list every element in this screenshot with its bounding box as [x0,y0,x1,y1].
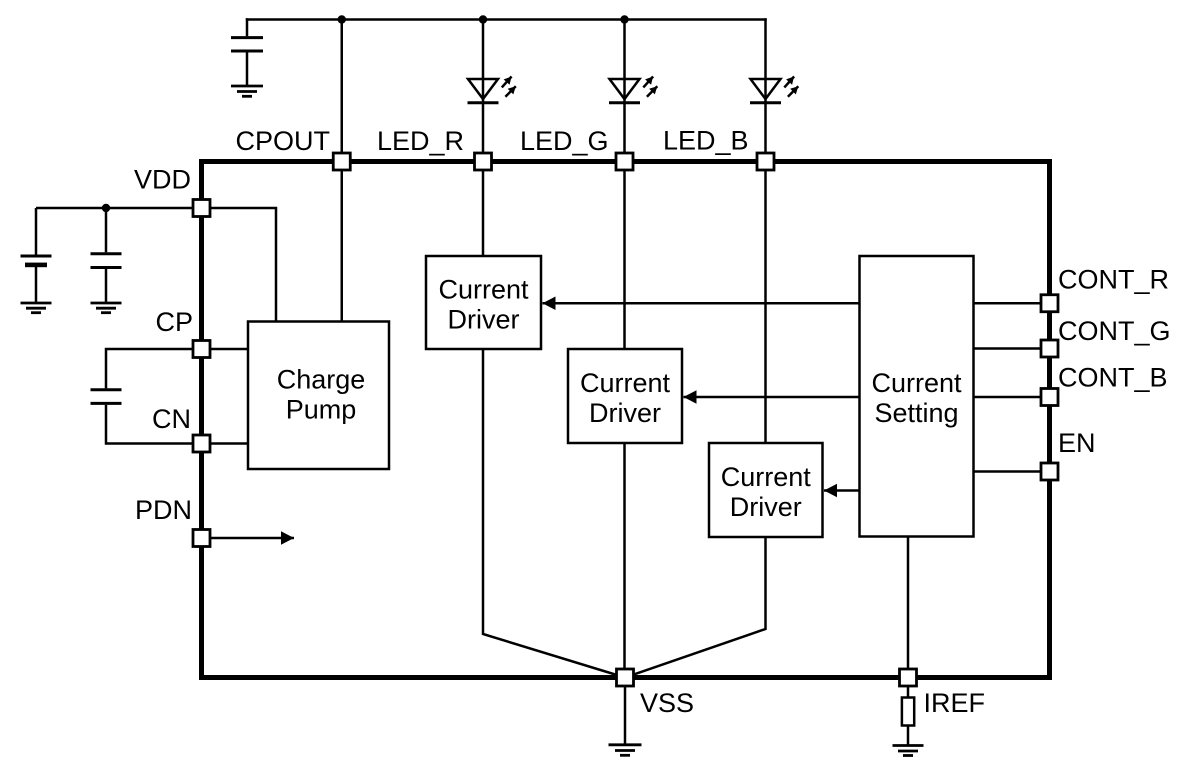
node junction VDD rail / C3 [102,204,110,212]
pin VDD [193,200,210,217]
svg-text:CPOUT: CPOUT [236,126,331,156]
block Current Driver G [568,349,682,443]
block Current Setting U2 [860,256,974,537]
svg-text:CONT_G: CONT_G [1058,316,1171,346]
svg-text:Current: Current [580,368,671,398]
wire IREF pin to resistor [907,686,910,698]
wire LED_R column (rail to pin) [482,20,485,153]
svg-text:EN: EN [1058,428,1096,458]
svg-text:VSS: VSS [640,688,694,718]
svg-text:IREF: IREF [924,688,986,718]
wire Current Driver R to VSS [483,349,625,678]
svg-text:LED_G: LED_G [520,126,609,156]
capacitor C4 (flying cap CP-CN) [91,349,194,444]
svg-text:PDN: PDN [135,495,192,525]
wire CPOUT pin to Charge Pump [341,171,344,322]
arrow Current Setting to Current Driver R [543,302,860,305]
wire resistor to ground [907,726,910,746]
svg-text:Charge: Charge [277,365,366,395]
wire LED_G pin to Current Driver G [623,171,626,349]
pin CPOUT [333,153,350,170]
svg-text:Current: Current [438,275,529,305]
wire CP pin to Charge Pump [210,348,248,351]
ground (VSS) [609,745,642,756]
svg-text:CONT_B: CONT_B [1058,363,1168,393]
svg-text:Driver: Driver [448,305,520,335]
resistor R1 (IREF set resistor) [902,698,914,726]
arrow PDN internal signal [211,537,295,540]
pin CONT_B [1041,389,1058,406]
wire VDD rail (left) [36,207,193,210]
svg-text:Pump: Pump [286,395,357,425]
capacitor C3 (input cap) [91,208,122,302]
wire VSS pin to ground [624,686,627,745]
node junction LED_G/rail [620,15,628,23]
pin IREF [900,669,917,686]
svg-text:Setting: Setting [874,398,958,428]
ground (below C2) [21,303,52,313]
wire VDD pin to Charge Pump [210,208,276,322]
ground (below C3) [91,303,122,313]
pin CN [193,435,210,452]
pin VSS [617,669,634,686]
arrow Current Setting to Current Driver B [824,489,860,492]
pin PDN [193,530,210,547]
pin CP [193,341,210,358]
node junction CPOUT/rail [338,15,346,23]
pin CONT_R [1041,295,1058,312]
svg-text:VDD: VDD [134,165,191,195]
wire Current Driver B to VSS [625,537,766,678]
wire CN pin to Charge Pump [210,442,248,445]
wire LED_B pin to Current Driver B [764,171,767,443]
arrow Current Setting to Current Driver G [684,396,860,399]
block Current Driver R [426,256,541,349]
svg-text:CONT_R: CONT_R [1058,265,1169,295]
wire Current Driver G to VSS [623,443,626,678]
capacitor C1 (top decoupling cap) [231,18,263,86]
block Charge Pump U1 [248,322,389,470]
pin CONT_G [1041,340,1058,357]
ground (IREF) [893,746,924,756]
node junction LED_R/rail [479,15,487,23]
svg-text:Driver: Driver [589,398,661,428]
wire EN pin to Current Setting [974,470,1042,473]
svg-text:LED_B: LED_B [663,126,749,156]
capacitor C2 (polarized input cap) [21,208,52,302]
svg-text:CP: CP [155,307,193,337]
svg-text:Current: Current [871,368,962,398]
wire CONT_G pin to Current Setting [974,347,1042,350]
LED D2 (green LED) [609,77,657,103]
pin EN [1041,463,1058,480]
ground (below C1) [231,86,263,96]
pin LED_R [475,153,492,170]
svg-text:LED_R: LED_R [377,126,464,156]
wire Current Setting to IREF pin [907,537,910,678]
wire CONT_R pin to Current Setting [974,302,1042,305]
pin LED_B [757,153,774,170]
svg-text:CN: CN [152,404,191,434]
IC boundary [202,162,1050,678]
LED D3 (blue LED) [750,77,798,103]
wire LED_R pin to Current Driver R [482,171,485,256]
LED D1 (red LED) [468,77,516,103]
block Current Driver B [709,443,823,537]
wire CONT_B pin to Current Setting [974,396,1042,399]
wire top supply rail [246,18,767,21]
wire LED_G column (rail to pin) [623,20,626,153]
svg-text:Current: Current [721,462,812,492]
wire LED_B column (rail corner to pin) [764,18,767,152]
wire CPOUT column (rail to pin) [341,20,344,153]
pin LED_G [616,153,633,170]
svg-text:Driver: Driver [730,492,802,522]
